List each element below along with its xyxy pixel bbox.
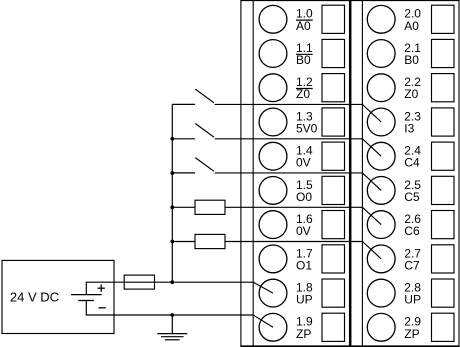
wire: switch S3 to terminal 2.5 [215,173,382,191]
terminal 1.7 clamp square [322,245,345,273]
svg-text:I3: I3 [404,122,414,136]
overline for B0 [296,53,313,55]
junction dot bus/S2 [170,137,174,141]
terminal 2.2 clamp square [432,74,455,102]
terminal 2.0 clamp square [432,5,455,33]
terminal 2.3 screw circle [367,108,395,136]
svg-text:A0: A0 [296,19,311,33]
svg-text:24 V DC: 24 V DC [10,289,59,304]
terminal 2.5 screw circle [367,177,395,205]
svg-text:B0: B0 [404,53,419,67]
svg-text:ZP: ZP [404,327,419,341]
terminal 1.0 screw circle [259,5,287,33]
terminal block X1 outline [240,0,459,346]
terminal 2.4 screw circle [367,142,395,170]
wire: resistor R2 to terminal 2.7 [225,242,381,259]
terminal 1.1 clamp square [322,39,345,67]
svg-text:C5: C5 [404,190,420,204]
terminal 2.4 clamp square [432,142,455,170]
terminal 1.2 screw circle [259,74,287,102]
terminal 2.2 screw circle [367,74,395,102]
junction dot -wire/ground [170,313,174,317]
terminal block divider (X1 right edge / X2 left edge) [349,0,352,347]
battery negative stem [85,301,87,316]
terminal 2.0 screw circle [367,5,395,33]
terminal 1.2 clamp square [322,74,345,102]
terminal 2.7 screw circle [367,245,395,273]
terminal 2.3 clamp square [432,108,455,136]
terminal 1.6 screw circle [259,211,287,239]
svg-text:0V: 0V [296,224,311,238]
terminal 1.0 clamp square [322,5,345,33]
terminal 1.5 screw circle [259,177,287,205]
terminal 1.3 screw circle [259,108,287,136]
wire: switch S2 to terminal 2.4 [215,139,382,156]
resistor R1 left lead [172,206,195,208]
junction dot bus/+wire [170,280,174,284]
terminal 2.1 clamp square [432,39,455,67]
svg-text:C4: C4 [404,156,420,170]
fuse F1 [124,275,154,289]
terminal 2.6 clamp square [432,211,455,239]
resistor R2 body [195,234,225,248]
terminal 2.5 clamp square [432,176,455,204]
junction dot bus/S3 [170,171,174,175]
svg-text:Z0: Z0 [404,87,418,101]
svg-text:Z0: Z0 [296,87,310,101]
battery symbol negative plate [78,300,94,302]
svg-text:5V0: 5V0 [296,122,318,136]
terminal 1.7 screw circle [259,245,287,273]
supply bus vertical wire [171,104,173,282]
terminal 2.8 screw circle [367,279,395,307]
svg-text:C7: C7 [404,258,420,272]
switch S1 blade [195,89,214,103]
overline for A0 [296,19,313,21]
terminal 2.8 clamp square [432,279,455,307]
terminal 2.6 screw circle [367,211,395,239]
svg-text:0V: 0V [296,156,311,170]
terminal 1.8 screw circle [259,279,287,307]
terminal 1.4 clamp square [322,142,345,170]
ground symbol [157,315,187,340]
plus sign [98,285,105,292]
wire: switch S1 to terminal 2.3 [215,104,382,122]
terminal 2.7 clamp square [432,245,455,273]
terminal 1.6 clamp square [322,211,345,239]
terminal 2.9 screw circle [367,313,395,341]
wire: resistor R1 to terminal 2.6 [225,207,381,224]
switch S3 blade [195,158,214,172]
svg-text:C6: C6 [404,224,420,238]
overline for Z0 [296,88,313,90]
junction dot bus/R2 [170,240,174,244]
switch S2 blade [195,124,214,138]
battery positive stem [85,282,87,295]
switch S1 left stub [172,103,195,105]
svg-text:UP: UP [296,293,313,307]
svg-text:ZP: ZP [296,327,311,341]
svg-text:UP: UP [404,293,421,307]
resistor R1 body [195,200,225,214]
terminal 1.8 clamp square [322,279,345,307]
svg-text:A0: A0 [404,19,419,33]
terminal 1.1 screw circle [259,40,287,68]
svg-text:B0: B0 [296,53,311,67]
terminal 1.3 clamp square [322,108,345,136]
svg-text:O1: O1 [296,258,312,272]
terminal 2.1 screw circle [367,40,395,68]
terminal blocks bottom border [240,345,459,347]
battery symbol positive plate [71,294,102,296]
terminal 1.9 screw circle [259,313,287,341]
resistor R2 left lead [172,241,195,243]
terminal 2.9 clamp square [432,313,455,341]
switch S2 left stub [172,138,195,140]
wire: battery - to terminal 1.9 ZP [86,315,273,327]
svg-text:O0: O0 [296,190,312,204]
24 V DC power supply box [2,260,114,333]
terminal 1.5 clamp square [322,176,345,204]
terminal block X2 outline [362,0,459,346]
minus sign [99,307,106,309]
terminal 1.9 clamp square [322,313,345,341]
junction dot bus/R1 [170,205,174,209]
switch S3 left stub [172,172,195,174]
wire: battery + to terminal 1.8 UP [86,282,273,293]
terminal 1.4 screw circle [259,142,287,170]
